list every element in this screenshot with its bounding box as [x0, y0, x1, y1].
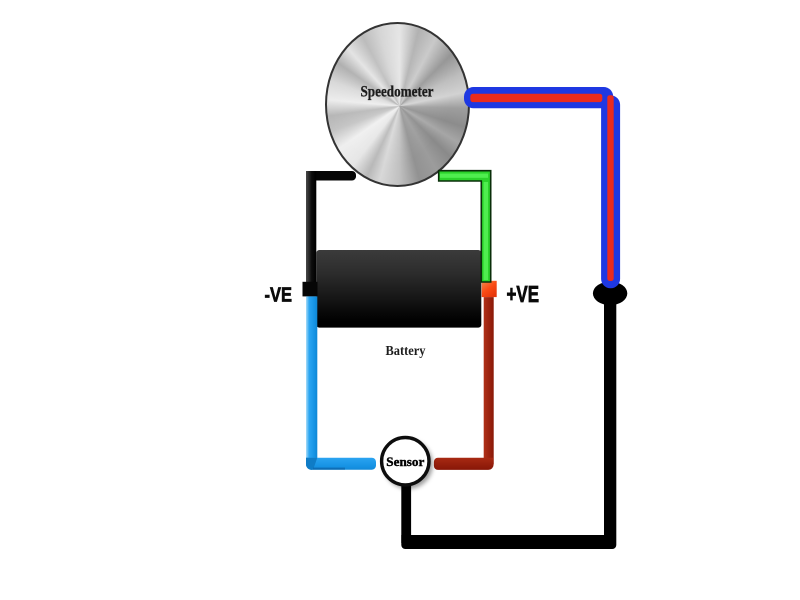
wire black sensor to junction node: [401, 299, 616, 549]
sensor S1: [382, 438, 433, 490]
speedometer gauge body U1: [325, 22, 470, 187]
battery body BT1: [316, 250, 481, 328]
svg-text:Speedometer: Speedometer: [361, 84, 434, 101]
battery positive terminal: [482, 281, 497, 297]
svg-text:+VE: +VE: [507, 281, 540, 307]
wire dark-red battery positive to sensor: [434, 297, 494, 470]
wire cyan battery negative to sensor: [306, 296, 376, 469]
wire blue-red speedometer to junction node: [464, 87, 620, 288]
battery negative terminal: [303, 282, 318, 297]
junction node: [593, 282, 627, 306]
svg-text:Sensor: Sensor: [386, 454, 424, 469]
wire black speedometer-to-battery negative: [306, 171, 356, 283]
wire black sensor stem: [401, 483, 411, 543]
svg-text:-VE: -VE: [265, 283, 293, 306]
svg-text:Battery: Battery: [386, 344, 426, 359]
wire green speedometer-to-battery positive: [439, 171, 491, 282]
